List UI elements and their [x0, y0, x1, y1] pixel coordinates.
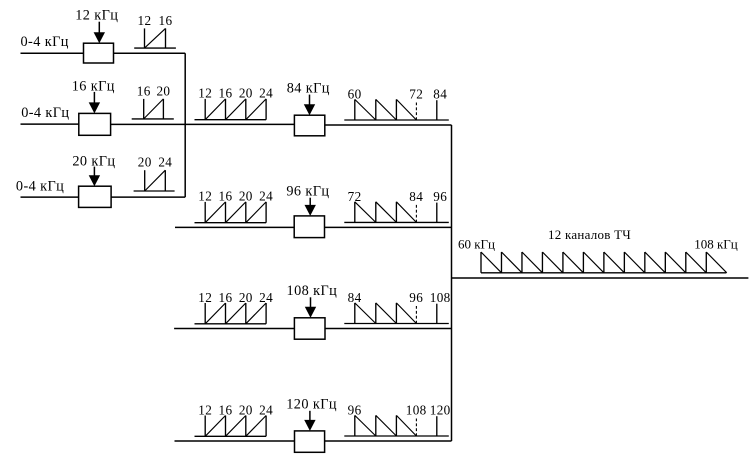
label carrier "84 кГц"	[287, 80, 330, 96]
svg-text:20: 20	[239, 290, 253, 305]
svg-text:16: 16	[219, 402, 233, 417]
wire group modulator G3 output	[325, 328, 452, 330]
spectrum group G1 output	[344, 87, 449, 120]
label carrier 2 "16 кГц"	[72, 79, 115, 95]
carrier arrow 96 кГц	[305, 198, 316, 216]
svg-text:20: 20	[138, 155, 152, 170]
group modulator G3	[294, 318, 325, 339]
group modulator G2	[294, 216, 324, 238]
label carrier "96 кГц"	[286, 183, 329, 199]
svg-text:108 кГц: 108 кГц	[287, 283, 338, 299]
carrier arrow 16 кГц	[89, 92, 100, 114]
label carrier "108 кГц"	[287, 283, 338, 299]
wire input 2	[21, 123, 79, 125]
svg-text:96 кГц: 96 кГц	[286, 183, 329, 199]
svg-text:12 каналов ТЧ: 12 каналов ТЧ	[548, 227, 631, 242]
svg-text:60 кГц: 60 кГц	[458, 237, 495, 252]
svg-text:24: 24	[259, 402, 273, 417]
svg-text:16: 16	[137, 83, 151, 98]
carrier arrow 120 кГц	[304, 411, 315, 431]
modulator M2	[79, 113, 111, 135]
spectrum pregroup 12-24 кГц before G2	[195, 189, 274, 223]
wire modulator M3 output	[111, 196, 185, 198]
label "12 каналов ТЧ"	[548, 227, 631, 242]
svg-text:84 кГц: 84 кГц	[287, 80, 330, 96]
label "108 кГц"	[694, 237, 738, 252]
carrier arrow 108 кГц	[305, 297, 316, 318]
svg-text:12: 12	[198, 86, 212, 101]
svg-text:24: 24	[259, 86, 273, 101]
svg-text:16: 16	[219, 86, 233, 101]
svg-text:20: 20	[239, 402, 253, 417]
spectrum 16-20 кГц	[132, 83, 174, 119]
svg-text:12: 12	[198, 402, 212, 417]
bus group combine vertical	[451, 125, 453, 441]
svg-text:108: 108	[430, 290, 451, 305]
spectrum pregroup 12-24 кГц before G1	[195, 86, 274, 120]
svg-text:72: 72	[348, 189, 362, 204]
wire group modulator G4 output	[325, 440, 452, 442]
svg-text:84: 84	[348, 290, 362, 305]
spectrum group G3 output	[344, 290, 450, 323]
wire input 3	[21, 196, 79, 198]
svg-text:108: 108	[406, 403, 427, 418]
spectrum 20-24 кГц	[134, 155, 175, 191]
wire modulator M1 output	[114, 52, 186, 54]
bus pregroup vertical	[184, 53, 186, 197]
svg-text:24: 24	[259, 290, 273, 305]
svg-text:20: 20	[239, 86, 253, 101]
svg-text:120: 120	[430, 403, 451, 418]
svg-text:96: 96	[433, 189, 447, 204]
label input 2 "0-4 кГц"	[21, 105, 69, 121]
label input 3 "0-4 кГц"	[16, 179, 64, 195]
wire group input G2	[175, 226, 294, 228]
label carrier 1 "12 кГц"	[75, 8, 118, 24]
svg-text:84: 84	[433, 87, 447, 102]
wire group modulator G1 output	[325, 124, 452, 126]
svg-text:20: 20	[156, 83, 170, 98]
modulator M1	[84, 43, 114, 63]
label carrier 3 "20 кГц"	[72, 153, 115, 169]
carrier arrow 20 кГц	[89, 167, 100, 187]
svg-text:96: 96	[409, 290, 423, 305]
svg-text:108 кГц: 108 кГц	[694, 237, 738, 252]
svg-text:12: 12	[138, 13, 152, 28]
wire combined output	[452, 277, 749, 279]
wire group input G3	[174, 328, 294, 330]
svg-text:120 кГц: 120 кГц	[286, 397, 337, 413]
wire modulator M2 output	[111, 123, 295, 125]
svg-text:16 кГц: 16 кГц	[72, 79, 115, 95]
spectrum pregroup 12-24 кГц before G4	[195, 402, 274, 436]
wire input 1	[21, 52, 84, 54]
wire group input G4	[175, 440, 295, 442]
svg-text:24: 24	[259, 189, 273, 204]
svg-text:96: 96	[348, 403, 362, 418]
svg-text:60: 60	[348, 87, 362, 102]
svg-text:16: 16	[159, 13, 173, 28]
svg-text:0-4 кГц: 0-4 кГц	[21, 105, 69, 121]
spectrum group G4 output	[344, 403, 450, 436]
label carrier "120 кГц"	[286, 397, 337, 413]
spectrum group G2 output	[344, 189, 449, 222]
label "60 кГц"	[458, 237, 495, 252]
svg-text:84: 84	[409, 189, 423, 204]
svg-text:72: 72	[409, 87, 423, 102]
svg-text:16: 16	[219, 290, 233, 305]
wire group modulator G2 output	[325, 226, 452, 228]
svg-text:16: 16	[219, 189, 233, 204]
svg-text:12 кГц: 12 кГц	[75, 8, 118, 24]
carrier arrow 12 кГц	[94, 22, 105, 44]
svg-text:12: 12	[198, 189, 212, 204]
svg-text:12: 12	[198, 290, 212, 305]
carrier arrow 84 кГц	[304, 95, 315, 116]
group modulator G1	[294, 115, 324, 136]
spectrum combined 60-108 кГц (12 channels)	[481, 252, 727, 273]
svg-text:24: 24	[158, 155, 172, 170]
svg-text:0-4 кГц: 0-4 кГц	[21, 34, 69, 50]
modulator M3	[79, 186, 112, 207]
svg-text:20: 20	[239, 189, 253, 204]
svg-text:0-4 кГц: 0-4 кГц	[16, 179, 64, 195]
group modulator G4	[295, 431, 325, 452]
label input 1 "0-4 кГц"	[21, 34, 69, 50]
spectrum 12-16 кГц	[134, 13, 176, 48]
spectrum pregroup 12-24 кГц before G3	[195, 290, 274, 324]
